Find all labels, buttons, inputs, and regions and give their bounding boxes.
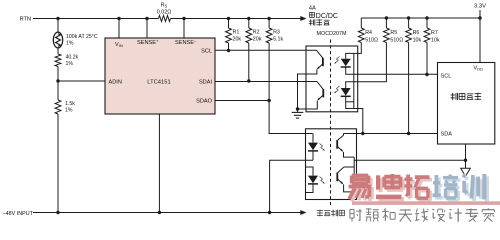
junction dot R7 bottom <box>425 73 428 76</box>
junction dot R6 top <box>407 16 410 19</box>
wire SENSE+ stub <box>146 19 148 39</box>
junction dot R2 top <box>247 17 250 20</box>
wire IC gnd pin <box>158 114 160 213</box>
junction dot 1.5k bottom <box>56 211 59 214</box>
wire LED4 anode <box>306 167 314 176</box>
svg-text:−48V INPUT: −48V INPUT <box>3 211 34 217</box>
svg-text:RTN: RTN <box>20 17 31 23</box>
svg-text:SCL: SCL <box>201 49 212 55</box>
junction dot gnd stem <box>464 159 467 162</box>
junction dot LED return bottom <box>268 211 271 214</box>
svg-text:510Ω: 510Ω <box>390 37 403 43</box>
wire 3.3V rail <box>361 17 480 19</box>
pin label VIN <box>115 42 123 48</box>
isolation barrier dashed line <box>330 40 332 208</box>
junction dot R6 bottom <box>407 132 410 135</box>
junction dot R1 bottom <box>227 49 230 52</box>
label LTC4151 <box>147 79 170 85</box>
wire 1.5k to bottom rail <box>57 114 59 213</box>
phototransistor Q1 <box>317 50 323 69</box>
svg-text:1%: 1% <box>66 61 74 67</box>
svg-text:SDAO: SDAO <box>196 98 213 104</box>
wire bottom rail <box>33 212 302 214</box>
resistor RS 0.02ohm <box>157 2 172 21</box>
svg-text:MOCD207M: MOCD207M <box>317 31 347 37</box>
svg-text:SENSE−: SENSE− <box>175 39 197 47</box>
svg-text:10k: 10k <box>413 37 422 43</box>
light arrow D2 <box>334 86 339 93</box>
wire Q3 collector to SDA <box>343 134 345 136</box>
svg-text:5.1k: 5.1k <box>273 37 283 43</box>
wire LED4 cathode <box>306 184 314 193</box>
arrow to DC/DC converter <box>300 16 306 21</box>
light arrow D3 <box>320 144 325 151</box>
wire uC SDA line <box>344 133 438 135</box>
resistor R1 20k <box>226 19 242 51</box>
optocoupler U3 box <box>306 129 357 200</box>
resistor R6 10k <box>406 18 422 134</box>
junction dot R3 top <box>267 17 270 20</box>
junction dot R5 top <box>385 16 388 19</box>
wire LED2 cathode to SDA <box>346 96 363 133</box>
pin label SCL <box>201 49 212 55</box>
supply 3.3V <box>474 3 486 62</box>
wire Q4 emitter <box>344 184 355 192</box>
svg-text:R5: R5 <box>390 30 397 36</box>
microcontroller U4 box <box>438 63 495 145</box>
junction dot thermistor top <box>56 17 59 20</box>
node RTN label <box>20 17 31 23</box>
junction dot R1 top <box>227 17 230 20</box>
watermark underline bar <box>352 201 500 205</box>
wire top rail left <box>33 18 159 20</box>
pin label SENSE- <box>175 39 197 47</box>
light arrow D4 <box>320 177 325 184</box>
wire R5 to LED2 anode <box>346 49 387 89</box>
LED D3 <box>308 143 318 151</box>
svg-text:RS: RS <box>161 2 168 8</box>
wire R4 to LED1 anode <box>346 49 362 59</box>
wire Q4 collector <box>344 166 354 168</box>
watermark big text yiditopeixun <box>349 174 487 202</box>
resistor R4 510 <box>358 18 378 49</box>
wire LED2 cell bottom <box>346 101 354 103</box>
svg-text:510Ω: 510Ω <box>365 37 378 43</box>
phototransistor Q2 <box>317 82 323 101</box>
LED D4 <box>308 176 318 184</box>
thermistor 100k AT 25C <box>53 32 98 48</box>
wire SCL line <box>215 49 317 51</box>
svg-text:40.2k: 40.2k <box>66 55 79 61</box>
resistor R3 5.1k <box>266 19 283 101</box>
svg-text:R7: R7 <box>431 30 438 36</box>
watermark slogan line <box>350 208 495 221</box>
junction dot R2 bottom <box>247 79 250 82</box>
svg-text:0.02Ω: 0.02Ω <box>157 10 172 16</box>
wire Q2 emitter <box>298 101 318 109</box>
svg-text:100k AT 25°C: 100k AT 25°C <box>66 34 98 40</box>
wire Q3 emitter <box>344 152 355 157</box>
wire thermistor to R40.2k <box>57 48 59 54</box>
resistor 1.5k <box>55 100 75 114</box>
svg-text:VIN: VIN <box>115 42 123 48</box>
svg-text:1.5k: 1.5k <box>65 101 75 107</box>
wire thermistor top <box>57 19 59 33</box>
optocoupler U2 box <box>306 46 358 112</box>
svg-text:R2: R2 <box>253 29 260 35</box>
node -48V INPUT label <box>3 211 34 217</box>
wire LED1 cell bracket <box>353 53 355 108</box>
svg-text:LTC4151: LTC4151 <box>147 79 170 85</box>
pin label SDAI <box>199 79 213 85</box>
junction dot IC gnd bottom <box>158 211 161 214</box>
light arrow D1 <box>334 57 339 64</box>
wire LED3 cathode <box>312 151 314 160</box>
wire ADIN <box>58 80 105 82</box>
wire ground line to uC <box>354 159 465 161</box>
svg-text:R6: R6 <box>413 30 420 36</box>
junction dot 3.3V <box>478 16 481 19</box>
wire ADIN node to 1.5k <box>57 81 59 100</box>
junction dot LED2 cathode on SDA <box>361 132 364 135</box>
svg-text:VDD: VDD <box>473 65 483 71</box>
svg-text:R4: R4 <box>365 30 372 36</box>
wire LED1 cathode to uC SCL <box>346 67 438 74</box>
svg-text:20k: 20k <box>233 37 242 43</box>
svg-text:ADIN: ADIN <box>109 79 122 85</box>
wire Q1 emitter <box>298 70 317 113</box>
svg-text:R3: R3 <box>273 29 280 35</box>
junction dot VIN <box>117 17 120 20</box>
label MOCD207M <box>317 31 347 37</box>
wire VIN stub <box>118 19 120 39</box>
pin label VDD <box>473 65 483 71</box>
pin label SENSE+ <box>137 39 159 47</box>
wire emitter bus vertical <box>353 157 355 192</box>
LED D2 <box>341 88 351 96</box>
pin label uC SDA <box>441 131 453 137</box>
svg-text:20k: 20k <box>253 37 262 43</box>
ground isolated side <box>292 112 304 118</box>
wire top rail right <box>171 18 303 20</box>
svg-text:3.3V: 3.3V <box>474 3 486 9</box>
resistor R2 20k <box>246 19 262 82</box>
label microcontroller <box>451 93 482 100</box>
pin label SDAO <box>196 98 213 104</box>
IC U1 LTC4151 body <box>105 38 215 114</box>
junction dot R3 bottom <box>267 99 270 102</box>
svg-text:1%: 1% <box>66 41 74 47</box>
phototransistor Q4 <box>337 167 344 184</box>
svg-text:SCL: SCL <box>441 73 452 79</box>
label isolation barrier <box>317 210 345 217</box>
wire 40.2k to ADIN node <box>57 67 59 82</box>
wire SENSE- stub <box>183 19 185 39</box>
svg-text:SDAI: SDAI <box>199 79 213 85</box>
LED D1 <box>341 59 351 67</box>
svg-text:SENSE+: SENSE+ <box>137 39 159 47</box>
resistor R7 10k <box>424 18 440 74</box>
arrow bottom rail <box>300 210 306 215</box>
pin label ADIN <box>109 79 122 85</box>
svg-text:R1: R1 <box>233 29 240 35</box>
junction dot SENSE- <box>182 17 185 20</box>
junction dot R7 top <box>425 16 428 19</box>
phototransistor Q3 <box>337 135 343 152</box>
wire SDAO drop to LED3 <box>269 101 313 134</box>
resistor R5 510 <box>384 18 404 49</box>
svg-text:10k: 10k <box>431 37 440 43</box>
svg-text:SDA: SDA <box>441 131 453 137</box>
wire SDAI line <box>215 81 317 83</box>
ground uC side triangle <box>461 168 471 176</box>
svg-text:4A: 4A <box>309 6 316 12</box>
node ADIN junction <box>56 79 59 82</box>
wire LED return to rail <box>270 160 313 212</box>
junction dot emitter bus <box>296 107 299 110</box>
label 4A to DC/DC converter <box>309 6 338 26</box>
wire uC ground stem <box>465 144 467 168</box>
junction dot SENSE+ <box>145 17 148 20</box>
svg-text:1%: 1% <box>65 107 73 113</box>
svg-text:DC/DC: DC/DC <box>316 13 338 20</box>
wire SDAO line <box>215 100 269 102</box>
pin label uC SCL <box>441 73 452 79</box>
resistor 40.2k <box>55 54 78 67</box>
wire LED3 anode <box>312 134 314 143</box>
